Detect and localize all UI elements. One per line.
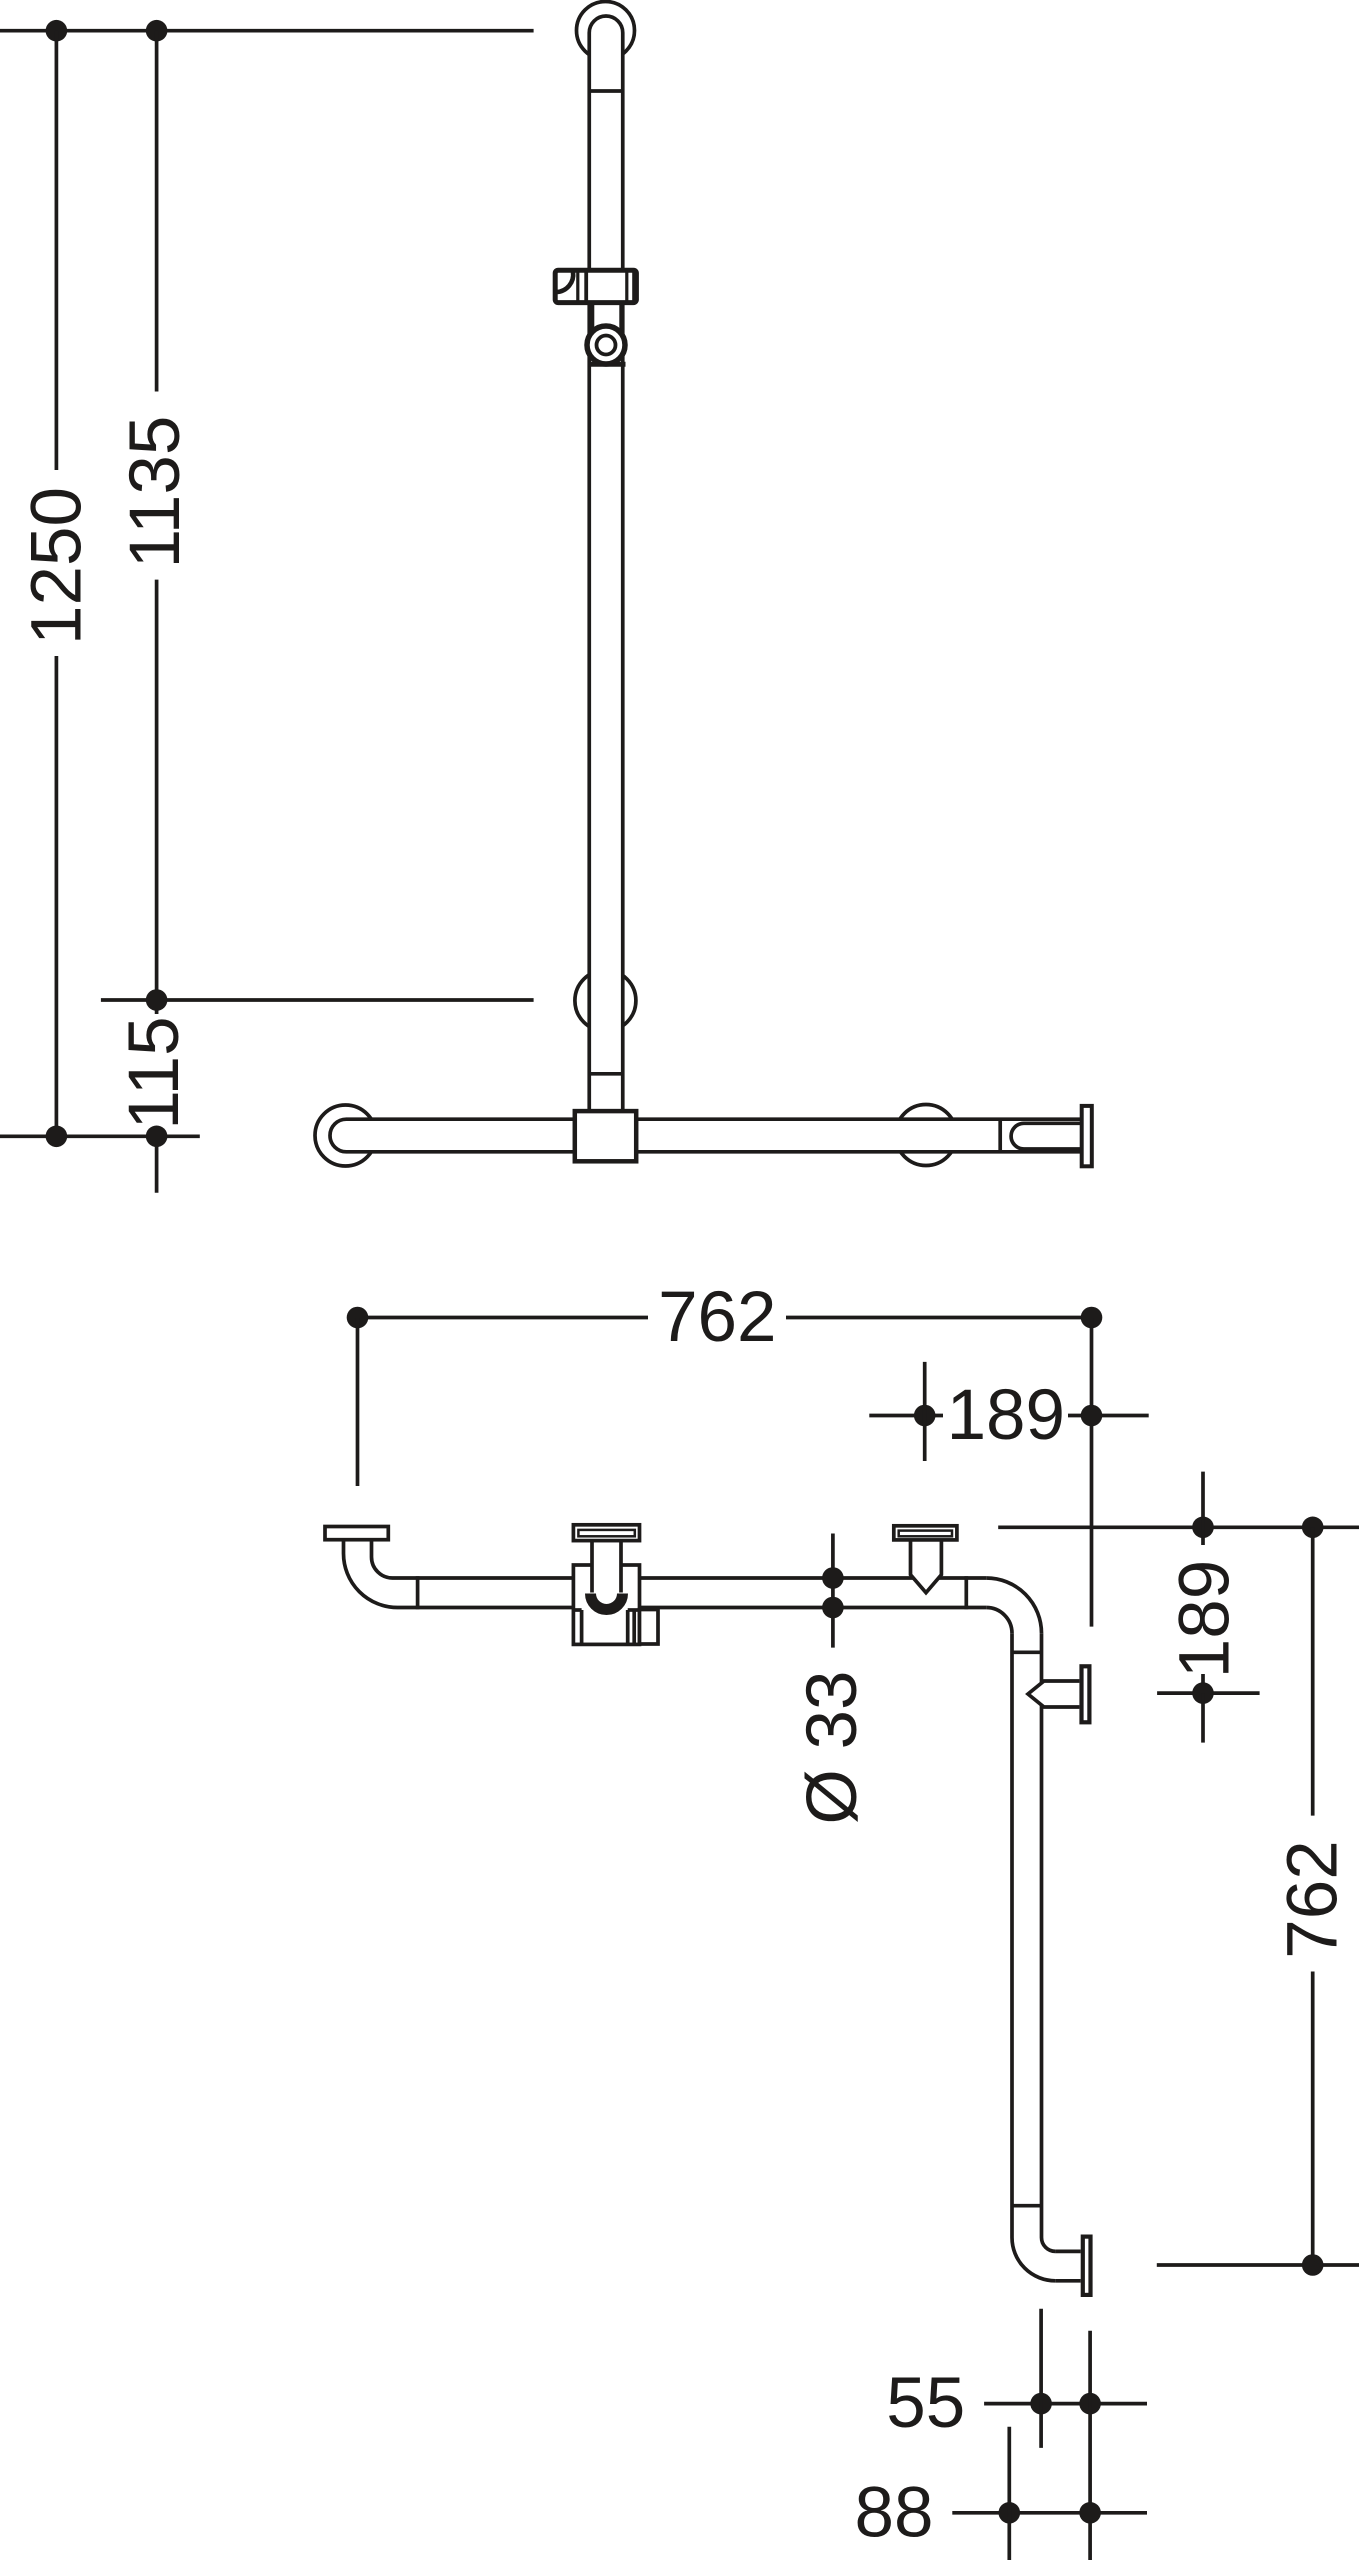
wall flange circle (top): [577, 2, 635, 60]
side wall support (plan, pointing left): [1028, 1666, 1089, 1722]
extension line corner axis: [1090, 1318, 1094, 1627]
dim 88: [952, 2511, 1147, 2515]
right elbow inner: [986, 1608, 1012, 1634]
center plate (plan): [573, 1525, 639, 1541]
shower head holder ring: [587, 326, 625, 364]
dim dot 1135 bottom: [146, 989, 168, 1011]
dim dot 762 right: [1081, 1307, 1103, 1329]
shower head holder bracket: [588, 303, 626, 364]
right elbow outer: [986, 1578, 1041, 1633]
dim dot 1250 bottom: [46, 1126, 68, 1148]
svg-text:762: 762: [658, 1278, 776, 1357]
rail stem (plan): [592, 1541, 621, 1610]
dim line 1250 vertical: [55, 31, 59, 470]
tube joint right: [964, 1576, 968, 1609]
svg-text:55: 55: [886, 2364, 965, 2443]
dim line 762 vertical right: [1311, 1527, 1315, 1815]
dim 55: [984, 2402, 1147, 2406]
wall support circle (mid rail): [575, 970, 636, 1031]
dim dot 762 right bottom: [1302, 2254, 1324, 2276]
bar inner end cap (right): [1011, 1123, 1080, 1149]
right wall support (plan): [894, 1526, 957, 1593]
vertical tube left line: [1010, 1633, 1014, 2237]
left flange plate (plan): [325, 1527, 388, 1540]
bar joint (right): [998, 1119, 1002, 1152]
rail joint (upper): [589, 89, 623, 93]
slider clamp lever (quarter arc): [557, 272, 574, 292]
bottom elbow inner: [1042, 2238, 1056, 2252]
tube top line: [393, 1576, 987, 1580]
right wall flange plate (side view): [1082, 1106, 1092, 1166]
svg-text:1250: 1250: [18, 487, 97, 645]
svg-text:189: 189: [1165, 1560, 1244, 1678]
left elbow outer: [344, 1540, 398, 1608]
left wall flange circle (bar): [315, 1105, 376, 1166]
svg-text:1135: 1135: [116, 416, 195, 569]
dim line 189 vertical right: [1201, 1472, 1205, 1545]
dim dot 115 bottom: [146, 1126, 168, 1148]
svg-text:115: 115: [115, 1016, 194, 1129]
vertical tube joint upper: [1012, 1650, 1042, 1654]
dim line at bar level: [0, 1134, 200, 1138]
rail stem thick U: [591, 1594, 623, 1610]
dim cross 189 bottom: [1157, 1691, 1260, 1695]
bottom stub bottom line: [1055, 2279, 1080, 2283]
dim line 1135 vertical: [155, 31, 159, 392]
bottom stub top line: [1055, 2250, 1080, 2254]
shower-head slider block: [555, 270, 636, 302]
dim dot 1250 top: [46, 20, 68, 42]
slider body: [573, 1565, 639, 1644]
dim dot 1135 top: [146, 20, 168, 42]
svg-text:88: 88: [855, 2473, 934, 2552]
dim line 762 top: [353, 1316, 648, 1320]
dim dot 762 left: [347, 1307, 369, 1329]
dim dot 762 right top: [1302, 1517, 1324, 1539]
vertical shower rail: [589, 16, 623, 1123]
vertical tube right line: [1040, 1633, 1044, 2237]
svg-text:762: 762: [1274, 1840, 1353, 1958]
dim line bottom stub level: [1157, 2263, 1359, 2267]
dim line at support circle level: [101, 998, 534, 1002]
svg-text:Ø 33: Ø 33: [793, 1671, 872, 1825]
center slider assembly (plan): [573, 1525, 658, 1645]
horizontal grab bar: [330, 1119, 1081, 1152]
slider knob: [640, 1610, 659, 1645]
dim line diameter 33: [831, 1534, 835, 1648]
dim line 189 upper: [869, 1414, 943, 1418]
bottom wall flange plate (edge view): [1083, 2237, 1091, 2295]
dim dot 189 top: [1192, 1517, 1214, 1539]
dim line wall level: [998, 1525, 1359, 1529]
dim line top (level of top flange): [0, 29, 534, 33]
bottom elbow outer: [1012, 2238, 1055, 2281]
left elbow inner: [372, 1540, 393, 1578]
tube joint left: [416, 1576, 420, 1609]
extension line support axis: [923, 1362, 927, 1461]
vertical tube joint lower: [1012, 2204, 1042, 2208]
tube bottom line: [398, 1606, 987, 1610]
dim dot 189 left: [914, 1405, 936, 1427]
dim dot 189 right: [1081, 1405, 1103, 1427]
svg-text:189: 189: [947, 1376, 1065, 1455]
rail joint (lower): [589, 1072, 623, 1076]
extension line left flange axis: [356, 1318, 360, 1487]
cross block (rail to bar): [575, 1111, 636, 1161]
right wall support circle (bar): [896, 1105, 957, 1166]
